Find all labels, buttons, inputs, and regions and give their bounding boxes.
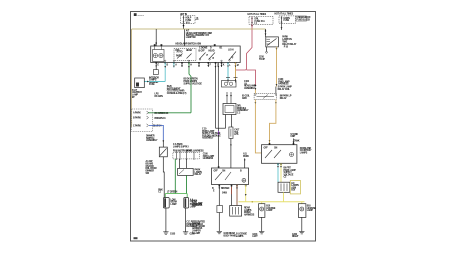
- svg-text:RELAY COIL: RELAY COIL: [278, 88, 291, 91]
- svg-text:BROWN 16: BROWN 16: [155, 118, 167, 120]
- svg-text:CONSOLE ASM (LT): CONSOLE ASM (LT): [167, 92, 187, 95]
- svg-text:ASSEMBLY: ASSEMBLY: [202, 137, 214, 140]
- svg-text:LAMPS SUPPLY: LAMPS SUPPLY: [173, 146, 189, 149]
- svg-text:B PARK: B PARK: [133, 117, 141, 120]
- svg-text:HARNESS: HARNESS: [192, 204, 203, 207]
- svg-text:HEAD: HEAD: [186, 49, 192, 52]
- svg-text:10 A: 10 A: [186, 21, 191, 24]
- svg-text:TANK: TANK: [294, 140, 300, 143]
- svg-text:LAMP: LAMP: [171, 203, 178, 206]
- svg-text:PANEL HARNESS: PANEL HARNESS: [186, 149, 204, 152]
- svg-text:FUSE BLOCK: FUSE BLOCK: [297, 19, 311, 21]
- svg-text:BLUE 14: BLUE 14: [153, 124, 162, 127]
- svg-text:LAMP SW: LAMP SW: [186, 36, 197, 39]
- svg-text:TO I/P: TO I/P: [259, 59, 265, 61]
- svg-text:FUSE: FUSE: [149, 84, 155, 86]
- svg-text:LAMP: LAMP: [266, 209, 273, 212]
- svg-text:B OFF: B OFF: [199, 51, 206, 53]
- svg-text:BROWN: BROWN: [221, 188, 230, 190]
- svg-text:HOT AT ALL TIMES: HOT AT ALL TIMES: [275, 13, 294, 16]
- svg-text:AUTO: AUTO: [177, 51, 183, 54]
- svg-text:HEADLAMP SWITCH ASM: HEADLAMP SWITCH ASM: [175, 43, 201, 46]
- svg-text:LAMPS: LAMPS: [236, 235, 244, 238]
- svg-text:C DOME: C DOME: [199, 47, 208, 49]
- svg-text:G105: G105: [170, 234, 176, 236]
- svg-text:LO HI: LO HI: [228, 50, 234, 52]
- svg-text:DELAY RELAY: DELAY RELAY: [282, 43, 297, 46]
- svg-text:SUPPLY VOLTAGE: SUPPLY VOLTAGE: [184, 82, 203, 85]
- svg-text:LPS: LPS: [234, 134, 239, 136]
- svg-text:FUSE: FUSE: [284, 20, 290, 22]
- svg-text:C PARK: C PARK: [133, 124, 141, 127]
- svg-text:HARNESS: HARNESS: [244, 213, 255, 216]
- svg-text:LAMPS: LAMPS: [300, 151, 308, 154]
- svg-text:RIGHT: RIGHT: [292, 236, 299, 238]
- svg-text:ON: ON: [274, 148, 278, 150]
- svg-text:A PARK: A PARK: [133, 111, 141, 114]
- svg-text:G LAMP: G LAMP: [192, 232, 201, 235]
- svg-text:UNIT: UNIT: [290, 136, 296, 138]
- svg-text:— — –: — — –: [138, 15, 145, 17]
- svg-text:HOT AT ALL TIMES: HOT AT ALL TIMES: [248, 13, 267, 16]
- svg-text:LT GREEN: LT GREEN: [167, 192, 178, 194]
- svg-text:RELAY: RELAY: [195, 173, 202, 176]
- svg-text:DK GREEN 16: DK GREEN 16: [155, 113, 170, 115]
- svg-text:HARNESS: HARNESS: [278, 83, 289, 86]
- svg-text:ON: ON: [222, 171, 226, 173]
- svg-text:OFF: OFF: [214, 171, 219, 173]
- svg-text:OFF: OFF: [264, 148, 269, 150]
- svg-text:DK GRN: DK GRN: [155, 96, 164, 98]
- svg-text:LEFT: LEFT: [252, 236, 258, 238]
- svg-text:HEAD: HEAD: [209, 50, 215, 53]
- svg-text:PARK: PARK: [243, 155, 249, 158]
- svg-text:ASSEMBLY: ASSEMBLY: [244, 87, 256, 90]
- svg-text:HARNESS: HARNESS: [203, 157, 214, 160]
- svg-text:M: M: [237, 65, 239, 67]
- svg-text:LAMP: LAMP: [307, 209, 314, 212]
- svg-text:GRD: GRD: [242, 98, 247, 100]
- svg-text:RELAY: RELAY: [280, 97, 287, 100]
- svg-text:ASSEMBLY: ASSEMBLY: [146, 139, 158, 142]
